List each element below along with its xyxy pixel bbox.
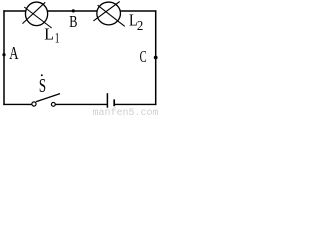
svg-text:1: 1 <box>55 30 60 46</box>
label L2 <box>129 11 143 34</box>
svg-text:S: S <box>39 76 46 97</box>
wire bottom-left segment <box>3 103 31 105</box>
node C <box>154 56 158 60</box>
label S with dot <box>39 74 46 97</box>
lamp L2 <box>93 2 124 27</box>
switch S blade <box>36 94 60 102</box>
svg-text:C: C <box>140 47 147 66</box>
wire top-right segment <box>120 10 156 12</box>
svg-text:manfen5.com: manfen5.com <box>93 107 159 116</box>
battery short plate (negative) <box>113 99 115 106</box>
wire top-left segment <box>3 10 26 12</box>
wire switch to battery <box>56 103 107 105</box>
svg-text:B: B <box>69 12 77 31</box>
label L1 <box>44 25 59 47</box>
wire left vertical <box>3 10 5 105</box>
svg-text:A: A <box>9 43 18 63</box>
svg-text:L: L <box>44 25 54 44</box>
wire right vertical <box>155 10 157 105</box>
battery long plate (positive) <box>106 93 108 108</box>
switch S right contact <box>51 102 55 106</box>
lamp L1 <box>23 2 52 28</box>
node B <box>72 9 75 12</box>
wire between lamps <box>47 10 97 12</box>
svg-text:2: 2 <box>137 19 143 34</box>
wire battery to bottom-right corner <box>115 103 156 105</box>
switch S left contact <box>32 102 36 106</box>
node A <box>2 53 5 56</box>
